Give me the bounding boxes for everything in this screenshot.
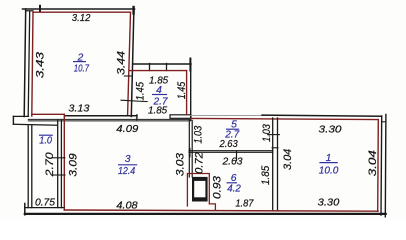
wall: room 4 top inner (red)	[129, 70, 186, 72]
wall: room 1 top outer (black)	[262, 115, 382, 116]
wall: room 6 top partition line 1	[189, 150, 273, 152]
tick: corridor corner tick across wall	[272, 147, 278, 149]
tick: room 6 dim tick at x=236.5	[236, 151, 238, 161]
tick: room 4 door tick 2	[166, 64, 168, 71]
wall: room1/room6 left wall outer line (black)	[272, 118, 274, 210]
wall: room 4 right inner (red)	[186, 71, 188, 115]
wall: small room top (black)	[13, 123, 57, 126]
svg-text:0.75: 0.75	[35, 197, 55, 208]
wall: corridor top / room 1 top (red)	[191, 118, 378, 119]
shaft: duct top thick bar	[192, 177, 207, 181]
wall: small room left wall outer	[27, 125, 29, 207]
tick: room 4 top right corner	[189, 59, 191, 71]
svg-text:12.4: 12.4	[118, 166, 135, 177]
wall: bottom cap left	[24, 204, 26, 215]
wall: room 1 right outer (black)	[384, 114, 387, 216]
svg-text:2.7: 2.7	[224, 130, 240, 141]
wall: room 2 right outer (black)	[131, 9, 134, 117]
wall: rooms 3/4/5 boundary lower line (black)	[28, 120, 190, 122]
svg-text:1.45: 1.45	[135, 81, 147, 100]
svg-text:3: 3	[125, 154, 131, 165]
tick: room 4 door tick 1	[149, 64, 151, 71]
wall: room 2 top outer (black)	[23, 8, 135, 10]
shaft: duct bottom thick bar	[192, 197, 207, 201]
wall: bottom inner (red)	[64, 210, 378, 211]
wall: rooms 3/4/5 boundary upper line (black)	[28, 118, 190, 120]
svg-text:10.0: 10.0	[319, 165, 339, 176]
svg-text:3.09: 3.09	[68, 153, 80, 176]
svg-text:6: 6	[231, 173, 237, 184]
wall: room1/room6 left wall inner line (black)	[277, 118, 279, 210]
shaft: red outline	[187, 174, 215, 211]
svg-text:2.63: 2.63	[219, 139, 238, 150]
wall: room 1 right wall connector	[382, 121, 386, 123]
svg-text:3.03: 3.03	[174, 153, 186, 176]
svg-text:3.30: 3.30	[319, 124, 342, 135]
tick: dim tick on room2 right wall at 3.44 end	[124, 75, 131, 77]
svg-text:3.12: 3.12	[72, 13, 91, 24]
wall: bottom outer (black)	[25, 213, 386, 215]
svg-text:0.93: 0.93	[212, 176, 224, 199]
tick: 1.03 dim tick across wall	[268, 134, 280, 136]
wall: room3/room6 partition left line	[188, 120, 190, 177]
wall: room3/room6 partition right line	[191, 120, 193, 177]
wall: room 2 right inner (red)	[128, 12, 131, 114]
small room label 1.0	[39, 134, 53, 136]
wall: room 2 left outer (black)	[24, 9, 26, 117]
wall: room 1 right middle (black)	[380, 116, 383, 215]
wall: room 6 top partition line 2	[189, 151, 273, 153]
tick: top right corner cap	[132, 7, 134, 14]
wall: room 2 bottom left segment (red)	[32, 113, 65, 115]
wall: room 2 left middle (black)	[28, 11, 30, 116]
wall: room 2 left inner (red)	[32, 12, 33, 116]
tick: top dimension tick near left	[39, 6, 41, 12]
svg-text:1.03: 1.03	[193, 126, 205, 144]
wall: room 4 top (black)	[133, 63, 191, 65]
svg-text:4.09: 4.09	[116, 124, 138, 135]
svg-text:0.72: 0.72	[194, 152, 206, 174]
wall: door jamb cap left	[136, 115, 138, 120]
wall: room 3 left wall inner (red)	[63, 114, 65, 210]
wall: room 3 left wall line 2 (black)	[60, 120, 62, 207]
wall: room 2 bottom upper line (black)	[66, 115, 137, 117]
wall: stub cap	[12, 116, 14, 124]
svg-text:3.44: 3.44	[115, 51, 127, 75]
svg-text:1.85: 1.85	[260, 165, 272, 185]
svg-text:3.04: 3.04	[367, 150, 379, 176]
wall: small room left wall inner	[31, 125, 33, 207]
svg-text:4.2: 4.2	[227, 183, 241, 194]
svg-text:3.43: 3.43	[35, 52, 47, 78]
svg-text:3.04: 3.04	[282, 149, 294, 170]
svg-text:2.70: 2.70	[44, 152, 56, 177]
tick: dim tick across room2 right wall	[121, 100, 147, 101]
wall: room 1 right inner (red)	[377, 120, 380, 212]
wall: room 4 right outer (black)	[190, 64, 192, 120]
svg-text:1.0: 1.0	[39, 136, 52, 147]
wall: bottom upper-left line (black)	[25, 207, 64, 209]
svg-text:1.45: 1.45	[176, 81, 188, 99]
svg-text:3.13: 3.13	[68, 104, 89, 115]
wall: room 2 left, cap	[26, 10, 34, 12]
shaft: black duct symbol	[193, 178, 206, 200]
svg-text:4.08: 4.08	[116, 201, 138, 212]
svg-text:1.03: 1.03	[261, 124, 273, 142]
tick: small room wall tick 1	[53, 157, 65, 159]
wall: door jamb right (hollow)	[170, 115, 191, 119]
wall: faint old wall line above corridor (gray)	[191, 115, 263, 117]
svg-text:10.7: 10.7	[74, 63, 90, 74]
svg-text:1.87: 1.87	[235, 199, 254, 210]
svg-text:2.63: 2.63	[221, 156, 242, 167]
wall: stub top left of small room	[13, 115, 28, 117]
tick: small room wall tick 2	[53, 174, 65, 176]
wall: room 3 left wall line 1 (black)	[57, 120, 59, 207]
svg-text:2.7: 2.7	[153, 96, 169, 107]
tick: room 6 top-left tick	[189, 149, 191, 157]
wall: room 2 top inner (red)	[33, 11, 131, 13]
svg-text:3.30: 3.30	[318, 198, 340, 209]
